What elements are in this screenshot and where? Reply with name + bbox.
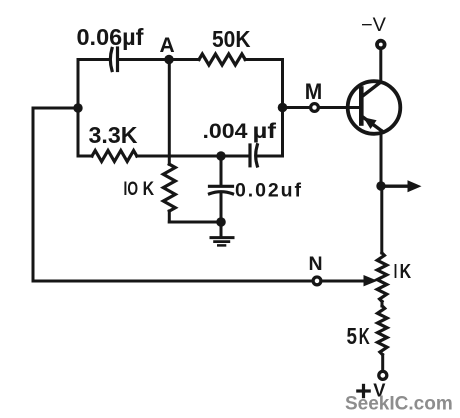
ground bar 1 [210, 236, 235, 239]
node junction dot mid (0.02uf top) [216, 151, 225, 160]
capacitor C1 0.06uf left curved plate [110, 49, 112, 71]
wire bottom rail horizontal to N arrow [33, 280, 365, 283]
wire junction to 0.02uf cap [220, 156, 223, 186]
wire 10K bottom lead [168, 211, 171, 222]
node junction dot ground [216, 217, 226, 227]
wire left vertical from top wire to junction [77, 60, 80, 109]
terminal circle M [311, 104, 319, 112]
svg-text:µf: µf [253, 119, 277, 143]
label +V plus horizontal stroke [356, 389, 371, 392]
wire node A vertical down through 3.3K row [168, 60, 171, 165]
transistor Q1 base bar [359, 89, 364, 124]
wire top-left horizontal to cap [78, 58, 110, 61]
resistor R2 3.3K zigzag [92, 151, 137, 162]
svg-text:−V: −V [361, 15, 386, 36]
wire 0.02uf to ground junction [220, 192, 223, 222]
wire M circle to transistor base [319, 106, 359, 109]
svg-text:K: K [359, 323, 370, 349]
capacitor C2 .004uf right curved plate [256, 145, 258, 166]
terminal circle +V [379, 371, 387, 379]
svg-text:.004: .004 [203, 119, 248, 143]
svg-text:I: I [394, 261, 398, 283]
wire base junction to M circle [283, 106, 311, 109]
resistor R5 5K zigzag [377, 306, 387, 354]
svg-text:A: A [160, 34, 175, 57]
svg-text:IO: IO [124, 178, 139, 200]
wire output node down to 1K pot [380, 186, 383, 253]
wire between 1K and 5K [381, 302, 384, 307]
wire outer left rail vertical [32, 108, 35, 281]
output arrowhead [408, 180, 422, 192]
node junction dot A [164, 55, 173, 64]
wire node A to 50K [169, 58, 199, 61]
svg-text:SeekIC.com: SeekIC.com [345, 394, 453, 415]
ground bar 3 [217, 244, 226, 247]
wire .004uf left lead [221, 155, 250, 158]
potentiometer R4 1K zigzag [377, 253, 387, 301]
wire 3.3K left lead [78, 155, 92, 158]
wire 3.3K to junction with 0.02uf [137, 155, 221, 158]
wiper arrowhead N [364, 275, 378, 286]
capacitor C3 0.02uf bottom curved plate [210, 192, 233, 194]
svg-text:3.3K: 3.3K [89, 122, 138, 148]
wire cap to node A [118, 58, 170, 61]
capacitor C3 0.02uf top straight plate [210, 185, 233, 188]
wire collector to -V terminal [379, 49, 382, 82]
svg-text:M: M [305, 79, 323, 104]
wire junction left to outer left rail [33, 107, 78, 110]
svg-text:50K: 50K [212, 26, 251, 52]
node junction dot output [376, 181, 385, 190]
svg-text:K: K [400, 261, 412, 283]
wire output node to arrow [381, 184, 409, 187]
label +V plus vertical stroke [362, 384, 365, 398]
wire .004uf to right rail [256, 155, 283, 158]
svg-text:0.02uf: 0.02uf [235, 180, 302, 202]
transistor Q1 emitter slant [364, 118, 382, 131]
resistor R1 50K zigzag [199, 54, 245, 65]
wire junction down to 3.3K row [77, 108, 80, 156]
resistor R3 10K vertical zigzag [163, 164, 175, 211]
transistor Q1 collector slant [362, 82, 381, 97]
svg-text:5: 5 [347, 323, 358, 349]
node junction dot left [73, 103, 82, 112]
svg-text:N: N [309, 253, 323, 275]
capacitor C1 0.06uf right straight plate [116, 48, 119, 71]
ground stem [220, 222, 223, 236]
transistor Q1 circle [348, 81, 401, 134]
terminal circle N [313, 277, 321, 285]
wire 50K to top-right corner [245, 58, 282, 61]
svg-text:K: K [143, 178, 155, 200]
wire right vertical top [281, 60, 284, 108]
ground bar 2 [213, 240, 230, 243]
wire right vertical lower [281, 108, 284, 157]
capacitor C2 .004uf left straight plate [248, 145, 251, 166]
terminal circle -V [377, 41, 385, 49]
wire 10K bottom to ground junction [169, 221, 221, 224]
node junction dot base [278, 103, 288, 113]
transistor Q1 emitter arrowhead [363, 117, 376, 129]
wire emitter down to output node [380, 131, 383, 187]
wire 5K to +V terminal [381, 355, 384, 370]
svg-text:0.06µf: 0.06µf [77, 24, 144, 50]
